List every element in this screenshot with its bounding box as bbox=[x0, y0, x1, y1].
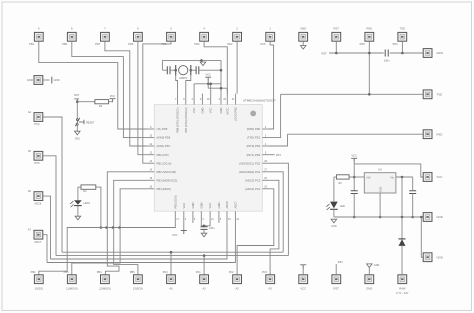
svg-text:(RXD) PD0: (RXD) PD0 bbox=[247, 127, 261, 131]
wire LED2 anode bbox=[333, 177, 335, 201]
pad JP1-9 bbox=[34, 32, 43, 41]
svg-text:PB4: PB4 bbox=[97, 271, 102, 274]
wire button to gnd bbox=[76, 125, 78, 131]
junction bbox=[353, 176, 356, 179]
svg-text:11(MOSI): 11(MOSI) bbox=[66, 286, 78, 290]
pad bottom 10(SS) bbox=[34, 275, 43, 284]
wire VCC stem bbox=[207, 77, 209, 88]
svg-text:+5V: +5V bbox=[366, 177, 371, 180]
pad bottom A1 bbox=[200, 275, 209, 284]
pad bottom 11(MOSI) bbox=[67, 275, 76, 284]
svg-text:PC1: PC1 bbox=[196, 271, 201, 274]
wire pad9 to PD5 pin9 bbox=[39, 41, 148, 129]
svg-text:ADC6: ADC6 bbox=[225, 201, 229, 209]
junction bbox=[209, 83, 212, 86]
wire TXD to PD1 bbox=[269, 94, 281, 137]
wire C3 to gnd bbox=[353, 194, 355, 218]
svg-text:16MHz: 16MHz bbox=[179, 77, 188, 80]
pin stub right 4 bbox=[262, 145, 269, 147]
svg-text:PC0: PC0 bbox=[163, 271, 168, 274]
pin stub top 6 bbox=[201, 94, 203, 105]
svg-text:VCC: VCC bbox=[437, 175, 443, 179]
svg-text:VCC: VCC bbox=[192, 107, 196, 113]
svg-text:6.7V - 12V: 6.7V - 12V bbox=[396, 291, 409, 295]
svg-text:GND: GND bbox=[219, 107, 223, 113]
pad A7 bbox=[34, 230, 43, 239]
wire pad A0 riser bbox=[170, 252, 172, 275]
VCC symbol bottom bbox=[181, 231, 187, 235]
pad GND left bbox=[34, 76, 43, 85]
diode D1 bbox=[399, 238, 406, 240]
svg-text:A1: A1 bbox=[202, 286, 206, 290]
wire XTAL1 down bbox=[176, 75, 178, 93]
junction bbox=[203, 225, 206, 228]
wire VCC feed 2 bbox=[210, 84, 212, 94]
svg-text:RST: RST bbox=[74, 94, 79, 97]
junction bbox=[368, 52, 371, 55]
svg-text:RAW: RAW bbox=[399, 286, 406, 290]
svg-text:PC6: PC6 bbox=[260, 42, 266, 46]
VCC symbol top bbox=[205, 77, 211, 81]
wire R2 right lead bbox=[349, 176, 354, 178]
junction bbox=[100, 226, 103, 229]
pin stub top 8 bbox=[185, 94, 187, 105]
LED LED2 power bbox=[330, 202, 338, 209]
svg-text:GND: GND bbox=[366, 286, 372, 290]
pad bottom A2 bbox=[233, 275, 242, 284]
pad A6 bbox=[34, 192, 43, 201]
wire GND pad stub bbox=[302, 41, 304, 45]
svg-text:A7: A7 bbox=[28, 228, 32, 232]
pin stub bottom 3 bbox=[200, 211, 202, 223]
ground resonator bbox=[200, 62, 206, 66]
ground C2 bbox=[201, 233, 207, 237]
pad pad RXD bbox=[365, 32, 374, 41]
capacitor C4 bbox=[409, 191, 416, 194]
wire resonator left vertical bbox=[161, 60, 163, 70]
pad JP1-5 bbox=[167, 32, 176, 41]
svg-text:(SCK) PB5: (SCK) PB5 bbox=[234, 107, 238, 121]
wire PB2 to pad 12 bbox=[105, 172, 147, 275]
pad GND right 1 bbox=[423, 213, 432, 222]
svg-text:PD1: PD1 bbox=[393, 42, 399, 46]
wire DTR net right bbox=[390, 52, 424, 54]
pad RXD right bbox=[423, 130, 432, 139]
svg-text:(ADC2) PC2: (ADC2) PC2 bbox=[245, 187, 260, 191]
wire TXD net bbox=[281, 93, 424, 95]
wire net A4 horizontal bbox=[62, 251, 283, 253]
wire VCC feed 1 bbox=[193, 84, 195, 94]
wire pad6 to PB0 pin12 bbox=[138, 41, 148, 154]
pin stub bottom 6 bbox=[192, 211, 194, 223]
wire net A4 to PC4 bbox=[269, 172, 283, 252]
junction bbox=[76, 100, 79, 103]
svg-text:VCC: VCC bbox=[172, 233, 178, 237]
svg-text:12(MISO): 12(MISO) bbox=[99, 286, 111, 290]
wire crystal row d bbox=[199, 69, 221, 71]
svg-text:ADC6: ADC6 bbox=[34, 201, 41, 205]
junction bbox=[112, 226, 115, 229]
svg-text:PB1: PB1 bbox=[29, 42, 34, 46]
wire RST to button bbox=[76, 99, 78, 119]
svg-text:ATMEGA168(A)TSSOP: ATMEGA168(A)TSSOP bbox=[243, 99, 276, 103]
svg-text:A0: A0 bbox=[169, 286, 173, 290]
pin stub left 12 bbox=[147, 154, 154, 156]
svg-text:GND: GND bbox=[200, 107, 204, 113]
wire net A6 to ADC6 bbox=[51, 223, 228, 259]
capacitor C2 100n bbox=[201, 227, 208, 230]
pin stub top 3 bbox=[220, 94, 222, 105]
svg-text:PD4: PD4 bbox=[194, 42, 200, 46]
wire C2 top a bbox=[201, 223, 204, 227]
wire VCC to pad bbox=[354, 164, 423, 177]
junction bbox=[401, 52, 404, 55]
pad bottom RAW bbox=[398, 275, 407, 284]
pad A5 bbox=[34, 151, 43, 160]
pin stub left 9 bbox=[147, 128, 154, 130]
svg-text:GND: GND bbox=[437, 215, 443, 219]
wire VCC stub down bbox=[183, 223, 185, 231]
capacitor C3 bbox=[351, 191, 358, 194]
svg-text:RXD: RXD bbox=[366, 26, 372, 30]
resistor R1 bbox=[81, 185, 96, 189]
pad GND right 2 bbox=[423, 253, 432, 262]
pin stub right 28 bbox=[262, 162, 269, 164]
pad JP1-1 PC6 bbox=[266, 32, 275, 41]
svg-text:PD0: PD0 bbox=[360, 42, 366, 46]
ground S1 bbox=[75, 131, 81, 135]
svg-text:PD6: PD6 bbox=[128, 42, 134, 46]
svg-text:GRN: GRN bbox=[437, 51, 443, 55]
junction bbox=[353, 216, 356, 219]
svg-text:A2: A2 bbox=[235, 286, 239, 290]
ground LED1 bbox=[75, 216, 81, 220]
svg-text:ADC7: ADC7 bbox=[34, 240, 41, 244]
wire LED1 cathode bbox=[77, 206, 79, 217]
pad bottom GND bbox=[365, 275, 374, 284]
wire C4 top lead bbox=[412, 177, 414, 191]
svg-text:ADC7: ADC7 bbox=[233, 201, 237, 209]
wire RST to R3 bbox=[77, 101, 95, 103]
pad pad TXD bbox=[398, 32, 407, 41]
wire net A5 horizontal bbox=[56, 255, 288, 257]
wire pad4 to AVCC bbox=[204, 41, 227, 93]
svg-text:VCC: VCC bbox=[209, 107, 213, 113]
pin stub left 16 bbox=[147, 188, 154, 190]
regulator IC2 5V bbox=[364, 173, 396, 193]
pad VCC right bbox=[423, 173, 432, 182]
svg-text:A4: A4 bbox=[28, 110, 32, 114]
wire GND pad riser bbox=[368, 268, 370, 275]
svg-text:PB4 (MISO): PB4 (MISO) bbox=[157, 187, 172, 191]
wire pad7 to PD7 pin11 bbox=[105, 41, 147, 146]
wire LED2 cathode bbox=[333, 209, 335, 217]
wire ground rail bbox=[334, 216, 423, 218]
wire pad5 to PB1 pin13 bbox=[143, 41, 171, 163]
svg-text:RESET: RESET bbox=[86, 121, 95, 124]
ground bottom pad bbox=[367, 264, 373, 268]
svg-text:R1: R1 bbox=[83, 189, 87, 193]
wire resonator GND top bbox=[162, 59, 221, 61]
pin stub left 13 bbox=[147, 162, 154, 164]
VCC symbol pullup bbox=[110, 99, 116, 103]
svg-text:(TXD) PD1: (TXD) PD1 bbox=[247, 136, 261, 140]
svg-text:RST: RST bbox=[338, 261, 343, 264]
wire pad8 to PD6 pin10 bbox=[72, 41, 148, 137]
wire R1 to SCK net bbox=[96, 187, 101, 227]
pad JP1-2 bbox=[233, 32, 242, 41]
pad TXD right bbox=[423, 90, 432, 99]
svg-text:PC3: PC3 bbox=[262, 271, 267, 274]
svg-text:PC5: PC5 bbox=[34, 161, 40, 165]
wire RXD net bbox=[288, 133, 424, 135]
svg-text:(INT0) PD2: (INT0) PD2 bbox=[247, 144, 261, 148]
pin stub top 7 bbox=[177, 94, 179, 105]
wire R1 left lead bbox=[78, 186, 81, 188]
pad JP1-4 bbox=[200, 32, 209, 41]
svg-text:PB6 (XTAL1/TOSC1): PB6 (XTAL1/TOSC1) bbox=[176, 107, 180, 132]
svg-text:PB3 (MOSI/OC2): PB3 (MOSI/OC2) bbox=[157, 178, 178, 182]
svg-text:(ADC3) PC3: (ADC3) PC3 bbox=[245, 178, 260, 182]
pad JP1-7 bbox=[101, 32, 110, 41]
svg-text:VCC: VCC bbox=[351, 154, 357, 158]
wire A5 feed bbox=[43, 156, 56, 256]
wire crystal row c bbox=[191, 69, 196, 71]
svg-text:13(SCK): 13(SCK) bbox=[133, 286, 143, 290]
svg-text:GND: GND bbox=[75, 139, 80, 141]
wire C2 top b bbox=[204, 223, 210, 226]
wire to GND pad 2 bbox=[421, 217, 423, 257]
wire VCC pad riser bbox=[302, 268, 304, 275]
svg-text:RST: RST bbox=[322, 51, 328, 55]
svg-text:GND: GND bbox=[437, 255, 443, 259]
wire VCC rail B bbox=[208, 87, 227, 89]
wire PB4 to pad 11 bbox=[72, 189, 148, 275]
svg-text:RST: RST bbox=[276, 154, 281, 157]
svg-text:PD7: PD7 bbox=[95, 42, 101, 46]
wire reg in bbox=[396, 176, 413, 178]
wire A4 feed bbox=[43, 117, 62, 252]
svg-text:PB0 (ICP): PB0 (ICP) bbox=[157, 153, 169, 157]
wire DTR net left bbox=[329, 52, 384, 54]
wire VCC vertical bbox=[353, 158, 355, 191]
wire net A7 to ADC7 bbox=[47, 223, 235, 263]
wire pad2/PC6 to PD0 bbox=[269, 41, 274, 129]
pin stub left 15 bbox=[147, 179, 154, 181]
wire crystal row a bbox=[162, 69, 167, 71]
svg-text:RST: RST bbox=[334, 286, 340, 290]
wire A6 feed bbox=[43, 196, 51, 259]
svg-text:GND: GND bbox=[300, 26, 306, 30]
svg-text:GND: GND bbox=[380, 187, 383, 193]
pad bottom RST bbox=[332, 275, 341, 284]
junction bbox=[401, 216, 404, 219]
capacitor C1 100n bbox=[385, 50, 388, 57]
pad JP1 GND bbox=[299, 32, 308, 41]
svg-text:PB7 (XTAL2/TOSC2): PB7 (XTAL2/TOSC2) bbox=[184, 107, 188, 132]
svg-text:A3: A3 bbox=[268, 286, 272, 290]
pad A4 bbox=[34, 113, 43, 122]
pin stub top 4 bbox=[193, 94, 195, 105]
junction bbox=[379, 216, 382, 219]
svg-text:(T1) PD5: (T1) PD5 bbox=[157, 127, 168, 131]
pad bottom 13(SCK) bbox=[134, 275, 143, 284]
supply flag GND bbox=[51, 77, 53, 84]
pin stub bottom 5 bbox=[218, 211, 220, 223]
svg-text:VCC: VCC bbox=[206, 74, 211, 77]
svg-text:(ADC5/SCL) PC5: (ADC5/SCL) PC5 bbox=[239, 161, 260, 165]
svg-text:PB2: PB2 bbox=[31, 271, 36, 274]
wire C2 to gnd bbox=[203, 229, 205, 233]
junction bbox=[203, 254, 206, 257]
pin stub right 3 bbox=[262, 137, 269, 139]
wire A7 feed bbox=[43, 235, 47, 263]
pin stub top 18 bbox=[210, 94, 212, 105]
svg-text:VCC: VCC bbox=[182, 203, 186, 209]
pin stub right 2 bbox=[262, 128, 269, 130]
svg-text:(ADC4/SDA) PC4: (ADC4/SDA) PC4 bbox=[239, 170, 261, 174]
svg-text:PC4: PC4 bbox=[34, 122, 40, 126]
LED LED1 bbox=[74, 200, 82, 205]
wire pad3 to AREF bbox=[236, 41, 238, 93]
junction bbox=[335, 52, 338, 55]
wire reg out bbox=[354, 176, 364, 178]
junction bbox=[190, 69, 193, 72]
svg-text:LED: LED bbox=[340, 204, 345, 208]
capacitor C5 load bbox=[167, 66, 170, 74]
wire RST pad riser bbox=[335, 264, 337, 275]
junction bbox=[207, 83, 210, 86]
wire PC3 to pad A3 bbox=[269, 180, 279, 275]
pin stub top 21 bbox=[235, 94, 237, 105]
svg-text:TXD: TXD bbox=[437, 93, 443, 97]
pad pad RST bbox=[332, 32, 341, 41]
junction bbox=[105, 226, 108, 229]
svg-text:10(SS): 10(SS) bbox=[35, 286, 43, 290]
wire PD3 RST stub bbox=[269, 154, 275, 156]
resistor R3 pullup bbox=[95, 100, 109, 104]
svg-text:A5: A5 bbox=[28, 149, 32, 153]
svg-text:TXD: TXD bbox=[400, 26, 405, 30]
wire RST pad down bbox=[335, 41, 337, 53]
wire TXD pad down bbox=[401, 41, 403, 53]
svg-text:AVCC: AVCC bbox=[225, 107, 229, 114]
svg-text:(AIN1) PD7: (AIN1) PD7 bbox=[157, 144, 171, 148]
pad GRN/DTR bbox=[423, 49, 432, 58]
pin stub bottom 22 bbox=[234, 211, 236, 223]
svg-text:PB5 (SCK): PB5 (SCK) bbox=[173, 195, 177, 208]
pad bottom A0 bbox=[167, 275, 176, 284]
pin stub right 27 bbox=[262, 171, 269, 173]
wire XTAL2 down bbox=[186, 75, 191, 93]
wire net A5 to PC5 bbox=[269, 163, 288, 255]
switch S1 RESET bbox=[76, 119, 78, 121]
VCC symbol VCC pad bbox=[300, 265, 306, 269]
pin stub right 26 bbox=[262, 179, 269, 181]
svg-text:A6: A6 bbox=[28, 189, 32, 193]
svg-text:GND: GND bbox=[191, 202, 195, 208]
svg-text:RXD: RXD bbox=[437, 132, 443, 136]
pin stub bottom 19 bbox=[226, 211, 228, 223]
svg-text:(AIN0) PD6: (AIN0) PD6 bbox=[157, 136, 171, 140]
wire crystal row b bbox=[170, 69, 176, 71]
svg-text:PB0: PB0 bbox=[62, 42, 67, 46]
wire diode cathode bbox=[401, 217, 403, 239]
capacitor C6 load bbox=[196, 66, 199, 74]
VCC symbol regulator bbox=[351, 158, 357, 162]
svg-text:GND: GND bbox=[199, 202, 203, 208]
svg-text:VCC: VCC bbox=[110, 95, 115, 98]
wire RXD pad down bbox=[368, 41, 370, 94]
pin stub top 20 bbox=[226, 94, 228, 105]
wire R3 to VCC bbox=[109, 101, 113, 103]
wire GND down to pin bbox=[220, 60, 222, 93]
svg-text:GND: GND bbox=[331, 225, 337, 228]
pad bottom 12(MISO) bbox=[101, 275, 110, 284]
resonator Q1 16MHz bbox=[176, 65, 191, 75]
svg-text:PB5: PB5 bbox=[130, 271, 135, 274]
wire diode to RAW pad bbox=[401, 246, 403, 275]
pin stub right 5 bbox=[262, 154, 269, 156]
svg-text:GND: GND bbox=[217, 202, 221, 208]
junction bbox=[220, 87, 223, 90]
svg-text:100n: 100n bbox=[384, 59, 390, 63]
junction bbox=[200, 59, 203, 62]
svg-text:PC2: PC2 bbox=[229, 271, 234, 274]
pin stub left 11 bbox=[147, 145, 154, 147]
svg-text:(INT1) PD3: (INT1) PD3 bbox=[247, 153, 261, 157]
svg-text:PD2: PD2 bbox=[227, 42, 233, 46]
svg-text:Vin: Vin bbox=[390, 177, 394, 180]
svg-text:GND: GND bbox=[27, 78, 33, 82]
wire VCC rail A bbox=[194, 83, 221, 85]
junction bbox=[411, 216, 414, 219]
svg-text:100n: 100n bbox=[209, 227, 215, 230]
resistor R2 bbox=[337, 175, 350, 179]
wire C4 to gnd bbox=[412, 194, 414, 218]
wire reg gnd bbox=[379, 193, 381, 217]
svg-text:RST: RST bbox=[334, 26, 340, 30]
ground GND pad bbox=[300, 46, 306, 50]
svg-text:GND: GND bbox=[54, 78, 60, 82]
wire LED1 anode bbox=[77, 187, 79, 198]
op-amp U1 body: microcontroller ATMEGA168 bbox=[154, 105, 262, 212]
wire RXD to PD2 bbox=[269, 134, 288, 146]
pin stub bottom 4 bbox=[183, 211, 185, 223]
pin stub right 25 bbox=[262, 188, 269, 190]
svg-text:VCC: VCC bbox=[300, 286, 306, 290]
pad JP1-6 bbox=[134, 32, 143, 41]
wire pad A1 riser bbox=[203, 256, 205, 275]
svg-text:PB2 (SS/OC1B): PB2 (SS/OC1B) bbox=[157, 170, 176, 174]
wire PC2 to pad A2 bbox=[237, 189, 274, 275]
pin stub left 14 bbox=[147, 171, 154, 173]
junction bbox=[174, 69, 177, 72]
wire LED1 top bbox=[77, 198, 79, 200]
svg-text:5V: 5V bbox=[378, 168, 382, 172]
junction bbox=[368, 93, 371, 96]
junction bbox=[118, 226, 121, 229]
pad bottom A3 bbox=[266, 275, 275, 284]
pad JP1-8 bbox=[67, 32, 76, 41]
svg-text:VCC: VCC bbox=[208, 203, 212, 209]
wire R2 left lead bbox=[334, 176, 337, 178]
wire reg in vertical bbox=[401, 177, 403, 217]
junction bbox=[170, 251, 173, 254]
U1 logo dot bbox=[250, 111, 256, 117]
junction bbox=[420, 216, 423, 219]
pin stub left 10 bbox=[147, 137, 154, 139]
